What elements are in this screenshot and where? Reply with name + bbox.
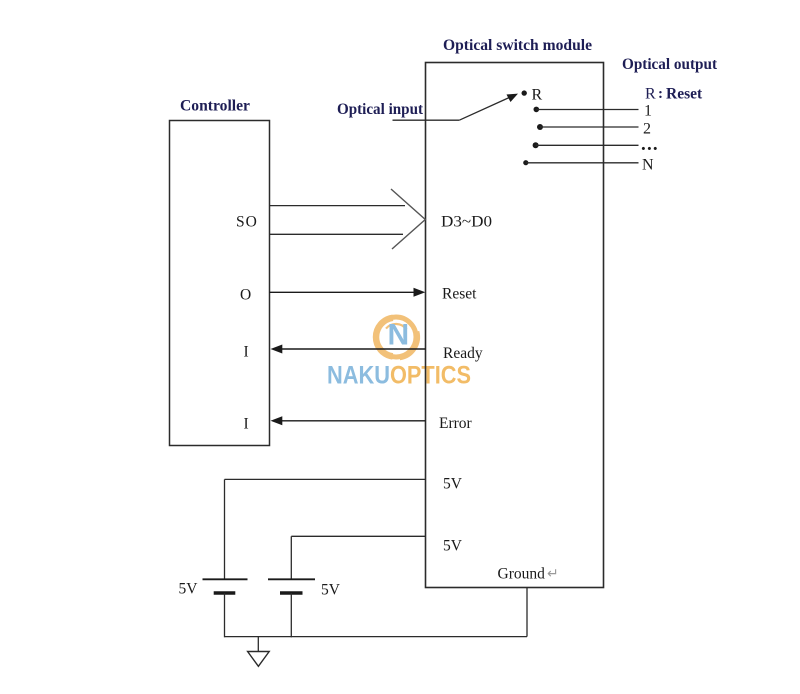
ground symbol xyxy=(248,637,270,667)
svg-text:NAKU: NAKU xyxy=(327,362,390,390)
svg-text:5V: 5V xyxy=(321,582,341,599)
wire module ground drop xyxy=(526,588,528,637)
wire Reset arrow xyxy=(270,288,426,297)
label output 1 xyxy=(644,103,652,120)
node output N dot xyxy=(523,160,528,165)
svg-text:OPTICS: OPTICS xyxy=(390,362,471,390)
label output 2 xyxy=(643,121,651,138)
wire battery B2 to ground rail xyxy=(290,593,292,637)
svg-text:O: O xyxy=(240,287,251,304)
node output ... dot xyxy=(533,142,539,148)
label I (error) xyxy=(244,416,249,433)
bus chevron arrowhead xyxy=(391,189,425,249)
label R at switch xyxy=(532,87,543,104)
controller box xyxy=(170,121,270,446)
label output N xyxy=(642,157,654,174)
svg-text:Ground: Ground xyxy=(498,566,546,583)
label Optical input xyxy=(337,101,424,118)
node output 1 dot xyxy=(534,107,540,113)
label 5V battery B1 xyxy=(179,581,199,598)
wire optical input horizontal xyxy=(393,119,460,121)
label Error xyxy=(439,415,473,432)
wire 5V upper xyxy=(225,479,426,579)
node R dot xyxy=(522,90,527,95)
label Controller xyxy=(180,98,250,115)
label D3~D0 xyxy=(441,214,492,231)
svg-text:1: 1 xyxy=(644,103,652,120)
label output ... xyxy=(641,134,659,155)
wire 5V lower xyxy=(291,536,425,579)
svg-text:↵: ↵ xyxy=(547,567,559,582)
svg-text:I: I xyxy=(244,344,249,361)
wire output N xyxy=(526,162,639,164)
bus wire upper (SO) xyxy=(270,205,406,207)
node output 2 dot xyxy=(537,124,543,130)
wire battery B1 to ground rail xyxy=(224,593,226,637)
svg-text::: : xyxy=(658,86,663,102)
svg-text:D3~D0: D3~D0 xyxy=(441,214,492,231)
switch arm arrow to R xyxy=(459,94,518,121)
label O xyxy=(240,287,251,304)
svg-text:Reset: Reset xyxy=(666,86,703,103)
svg-text:N: N xyxy=(388,319,410,352)
svg-text:SO: SO xyxy=(236,214,258,231)
wire output ... xyxy=(536,144,639,146)
svg-text:Controller: Controller xyxy=(180,98,250,115)
svg-text:Optical input: Optical input xyxy=(337,101,424,118)
svg-text:Optical switch module: Optical switch module xyxy=(443,37,592,54)
wire output 1 xyxy=(536,109,638,111)
battery B2 xyxy=(268,579,315,593)
label I (ready) xyxy=(244,344,249,361)
svg-text:Reset: Reset xyxy=(442,286,477,303)
svg-text:N: N xyxy=(642,157,654,174)
svg-text:Error: Error xyxy=(439,415,473,432)
label 5V battery B2 xyxy=(321,582,341,599)
svg-text:R: R xyxy=(532,87,543,104)
logo watermark NAKUOPTICS xyxy=(327,317,471,390)
svg-text:...: ... xyxy=(641,134,659,155)
wire Error arrow xyxy=(271,416,426,425)
battery B1 xyxy=(203,579,248,593)
optical switch module box xyxy=(426,63,604,588)
label Ground xyxy=(498,566,559,583)
label SO xyxy=(236,214,258,231)
label Reset xyxy=(442,286,477,303)
wire output 2 xyxy=(540,126,639,128)
svg-text:R: R xyxy=(645,86,656,103)
svg-text:Optical output: Optical output xyxy=(622,56,718,73)
label Ready xyxy=(443,345,483,362)
svg-text:5V: 5V xyxy=(179,581,199,598)
wire Ready arrow xyxy=(271,345,426,354)
svg-text:5V: 5V xyxy=(443,538,463,555)
label 5V lower pin xyxy=(443,538,463,555)
bus wire lower (SO) xyxy=(270,233,404,235)
label 5V upper pin xyxy=(443,476,463,493)
wire ground rail xyxy=(225,636,528,638)
label Optical output xyxy=(622,56,718,73)
svg-text:Ready: Ready xyxy=(443,345,483,362)
legend R : Reset xyxy=(645,86,703,103)
svg-text:I: I xyxy=(244,416,249,433)
svg-text:5V: 5V xyxy=(443,476,463,493)
label Optical switch module xyxy=(443,37,592,54)
